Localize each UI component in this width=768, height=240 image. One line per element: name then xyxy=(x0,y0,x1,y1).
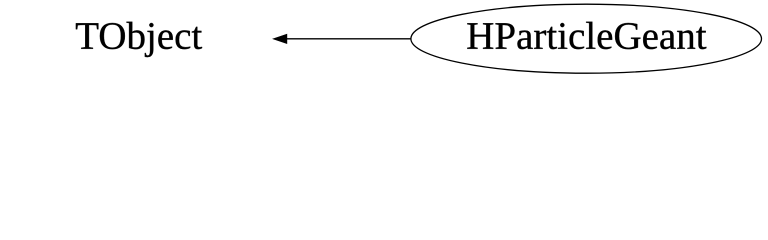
class label TObject xyxy=(76,22,202,57)
inheritance arrow wire xyxy=(286,38,412,40)
arrowhead xyxy=(273,34,287,43)
class label HParticleGeant xyxy=(467,22,706,49)
class ellipse HParticleGeant xyxy=(411,4,762,73)
